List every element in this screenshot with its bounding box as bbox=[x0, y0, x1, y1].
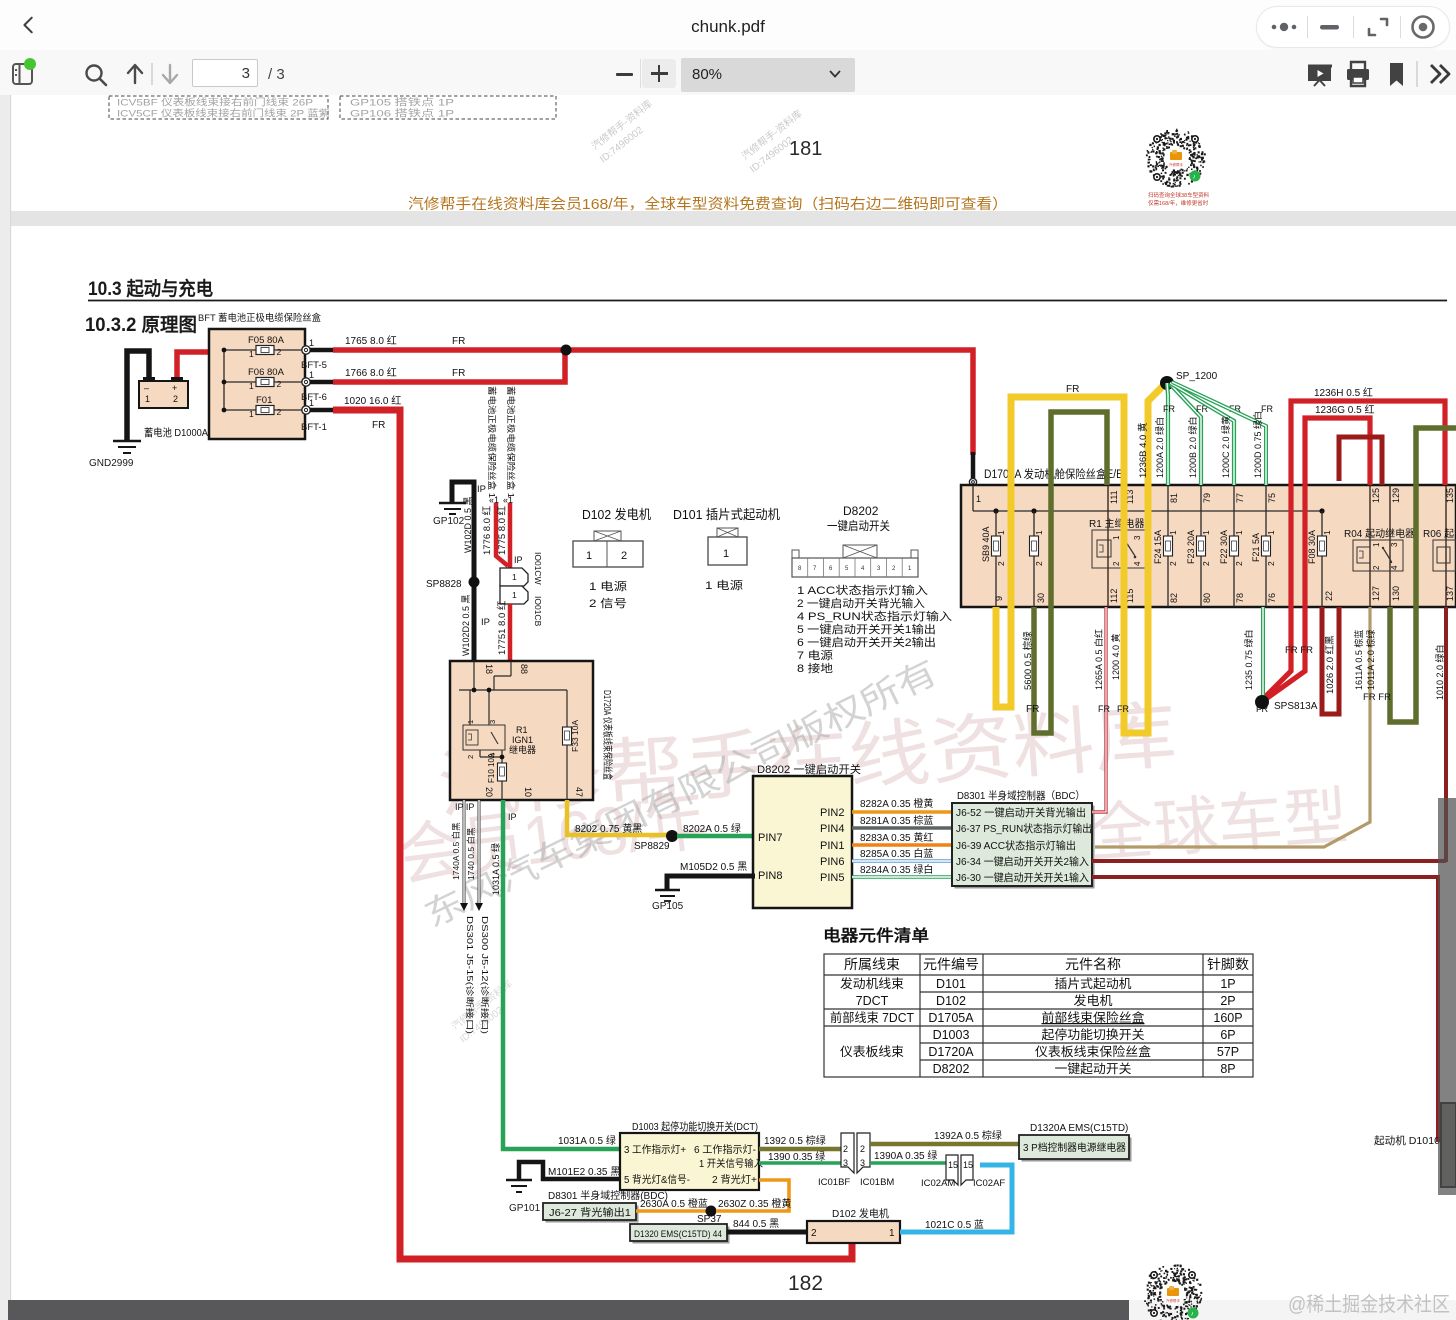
svg-text:5 背光灯&信号-: 5 背光灯&信号- bbox=[624, 1173, 690, 1186]
svg-text:2: 2 bbox=[277, 407, 282, 417]
fuse at pin 30 bbox=[1030, 511, 1047, 607]
svg-text:7 电源: 7 电源 bbox=[797, 648, 833, 662]
svg-text:扫码查询全球38车型资料: 扫码查询全球38车型资料 bbox=[1148, 191, 1210, 199]
svg-text:FR: FR bbox=[1117, 704, 1129, 714]
svg-text:起动机 D1010: 起动机 D1010 bbox=[1374, 1134, 1440, 1147]
scrollbar thumb bbox=[1438, 798, 1456, 1195]
svg-text:1031A 0.5 绿: 1031A 0.5 绿 bbox=[558, 1134, 616, 1147]
battery positive cable bbox=[177, 352, 209, 381]
svg-text:F05 80A: F05 80A bbox=[248, 335, 285, 346]
svg-text:D1705A: D1705A bbox=[928, 1011, 974, 1025]
svg-text:4 PS_RUN状态指示灯输入: 4 PS_RUN状态指示灯输入 bbox=[797, 609, 952, 623]
inline connectors IC02AM/IC02AF bbox=[921, 1155, 1005, 1189]
wire 8202A 0.5 green bbox=[677, 834, 755, 839]
svg-text:FR: FR bbox=[1026, 704, 1039, 715]
connector D8202 push-button pinout bbox=[792, 504, 952, 675]
svg-text:前部线束保险丝盒: 前部线束保险丝盒 bbox=[1042, 1010, 1145, 1025]
svg-text:2: 2 bbox=[1266, 561, 1276, 566]
svg-text:137: 137 bbox=[1445, 586, 1455, 601]
svg-text:1 开关信号输入: 1 开关信号输入 bbox=[699, 1157, 763, 1170]
svg-text:8 接地: 8 接地 bbox=[797, 662, 833, 675]
svg-text:D8301 半身域控制器（BDC）: D8301 半身域控制器（BDC） bbox=[957, 789, 1085, 802]
svg-text:1: 1 bbox=[309, 338, 314, 348]
svg-text:77: 77 bbox=[1235, 493, 1245, 503]
wire 1775 8.0 red bbox=[508, 503, 513, 568]
svg-text:1031A 0.5 绿: 1031A 0.5 绿 bbox=[490, 843, 501, 895]
svg-text:1236G 0.5 红: 1236G 0.5 红 bbox=[1315, 403, 1374, 416]
svg-text:IP: IP bbox=[514, 555, 523, 565]
wire 844 0.5 black bbox=[727, 1230, 807, 1235]
svg-text:D1320A EMS(C15TD): D1320A EMS(C15TD) bbox=[1030, 1123, 1128, 1134]
svg-text:1392 0.5 棕绿: 1392 0.5 棕绿 bbox=[764, 1134, 826, 1147]
svg-text:2: 2 bbox=[277, 347, 282, 357]
svg-text:2: 2 bbox=[1168, 561, 1178, 566]
svg-text:F21 5A: F21 5A bbox=[1251, 533, 1261, 562]
QR code stamp top bbox=[1146, 129, 1210, 207]
svg-text:1776 8.0 红: 1776 8.0 红 bbox=[481, 505, 493, 555]
starter box D1010 under scrollbar bbox=[1441, 1103, 1456, 1187]
svg-text:R1 主继电器: R1 主继电器 bbox=[1089, 517, 1145, 530]
svg-text:1010 2.0 绿白: 1010 2.0 绿白 bbox=[1434, 644, 1445, 700]
svg-text:D102 发电机: D102 发电机 bbox=[582, 507, 651, 522]
wire stub BFT-1 bbox=[310, 408, 333, 413]
svg-text:2: 2 bbox=[843, 1144, 848, 1154]
svg-text:2 背光灯+: 2 背光灯+ bbox=[712, 1173, 757, 1186]
BFT-6 terminal bbox=[301, 370, 327, 403]
svg-text:1: 1 bbox=[512, 590, 517, 600]
svg-text:3: 3 bbox=[843, 1158, 848, 1168]
svg-text:FR: FR bbox=[1163, 404, 1175, 414]
svg-text:1: 1 bbox=[996, 530, 1006, 535]
svg-text:J6-37 PS_RUN状态指示灯输出: J6-37 PS_RUN状态指示灯输出 bbox=[956, 822, 1092, 835]
svg-text:82: 82 bbox=[1169, 593, 1179, 603]
wire 1765 8.0 red bbox=[333, 350, 973, 455]
svg-text:D1003: D1003 bbox=[933, 1028, 970, 1042]
svg-text:1P: 1P bbox=[1220, 977, 1235, 991]
wire M105D2 0.5 black bbox=[667, 876, 755, 890]
fuse F22 30A bbox=[1219, 485, 1245, 607]
svg-text:1775 8.0 红: 1775 8.0 红 bbox=[496, 505, 508, 555]
svg-text:2 信号: 2 信号 bbox=[589, 597, 627, 610]
svg-text:J6-30 一键启动开关开关1输入: J6-30 一键启动开关开关1输入 bbox=[956, 871, 1089, 884]
svg-text:IC02AF: IC02AF bbox=[973, 1178, 1005, 1189]
svg-text:30: 30 bbox=[1036, 593, 1046, 603]
svg-text:D8202: D8202 bbox=[933, 1062, 970, 1076]
svg-text:D8202 一键启动开关: D8202 一键启动开关 bbox=[757, 762, 861, 776]
svg-text:181: 181 bbox=[789, 138, 822, 160]
svg-text:1200A 2.0 绿白: 1200A 2.0 绿白 bbox=[1154, 417, 1165, 478]
wire 2630Z 0.35 orange-yellow bbox=[716, 1180, 789, 1211]
svg-text:10: 10 bbox=[523, 787, 533, 797]
svg-text:2: 2 bbox=[1034, 561, 1044, 566]
svg-text:1: 1 bbox=[309, 398, 314, 408]
D1705A internal bus bbox=[973, 485, 1322, 511]
svg-text:1: 1 bbox=[586, 550, 592, 562]
fuse F05 80A bbox=[248, 335, 285, 359]
generator D102 bbox=[807, 1207, 900, 1243]
wire 1026 2.0 red-black loop bbox=[1322, 607, 1339, 714]
fuse box D1720A instrument panel bbox=[450, 661, 593, 800]
ground GND2999 bbox=[113, 441, 141, 453]
svg-text:5600 0.5 棕绿: 5600 0.5 棕绿 bbox=[1022, 631, 1034, 690]
fuse F06 80A bbox=[248, 367, 285, 391]
svg-text:76: 76 bbox=[1267, 593, 1277, 603]
svg-text:129: 129 bbox=[1391, 488, 1401, 503]
relay R1 IGN1 bbox=[463, 720, 536, 759]
connector list box ICV5BF/ICV5CF bbox=[109, 96, 331, 120]
svg-text:1765 8.0 红: 1765 8.0 红 bbox=[345, 334, 397, 347]
svg-text:15: 15 bbox=[948, 1160, 958, 1170]
svg-text:汽修帮手: 汽修帮手 bbox=[1169, 162, 1184, 167]
wire 1611A tan from pin127 bbox=[1095, 607, 1370, 847]
fuse F23 20A bbox=[1186, 485, 1212, 607]
svg-text:FR FR: FR FR bbox=[1285, 645, 1313, 656]
svg-text:蓄电池正极电缆保险丝盒 1: 蓄电池正极电缆保险丝盒 1 bbox=[506, 386, 516, 498]
svg-text:1: 1 bbox=[1372, 542, 1381, 547]
svg-text:3: 3 bbox=[860, 1158, 865, 1168]
svg-text:M105D2 0.5 黑: M105D2 0.5 黑 bbox=[680, 861, 747, 873]
QR code stamp bottom bbox=[1144, 1264, 1202, 1320]
svg-text:2 一键启动开关背光输入: 2 一键启动开关背光输入 bbox=[797, 596, 925, 610]
svg-text:182: 182 bbox=[788, 1272, 823, 1295]
wire 1200A 2.0 green-white bbox=[1154, 383, 1175, 485]
svg-text:1: 1 bbox=[1234, 530, 1244, 535]
wires 1740A/1740 white-black to DS301/DS300 bbox=[451, 800, 490, 1034]
svg-text:15: 15 bbox=[963, 1160, 973, 1170]
svg-text:FR: FR bbox=[452, 336, 465, 347]
svg-text:2: 2 bbox=[811, 1228, 817, 1239]
svg-text:88: 88 bbox=[519, 664, 529, 674]
svg-text:D1320 EMS(C15TD) 44: D1320 EMS(C15TD) 44 bbox=[634, 1229, 722, 1240]
relay R06 bbox=[1423, 485, 1456, 607]
D1720A internals bbox=[459, 661, 567, 800]
wire 1235 0.75 green-white bbox=[1243, 607, 1268, 714]
svg-text:FR: FR bbox=[372, 420, 385, 431]
svg-text:发电机: 发电机 bbox=[1074, 993, 1114, 1008]
svg-text:D8202: D8202 bbox=[843, 504, 879, 518]
ground point list box GP105/GP106 bbox=[340, 96, 556, 120]
svg-text:D101: D101 bbox=[936, 977, 966, 991]
BFT-5 terminal bbox=[301, 338, 327, 371]
svg-text:GP105: GP105 bbox=[652, 901, 684, 912]
relay R04 starter bbox=[1344, 485, 1415, 607]
svg-text:F23 20A: F23 20A bbox=[1186, 530, 1196, 564]
svg-text:125: 125 bbox=[1371, 488, 1381, 503]
svg-text:元件名称: 元件名称 bbox=[1065, 957, 1121, 972]
svg-text:1026 2.0 红黑: 1026 2.0 红黑 bbox=[1324, 635, 1336, 694]
fuse box BFT bbox=[209, 329, 305, 439]
svg-text:J6-52 一键启动开关背光输出: J6-52 一键启动开关背光输出 bbox=[956, 806, 1086, 819]
wire 1265A 0.5 white-red (J6-52 to pin112) bbox=[1092, 607, 1110, 812]
svg-text:FR FR: FR FR bbox=[1363, 692, 1391, 703]
svg-text:5 一键启动开关开关1输出: 5 一键启动开关开关1输出 bbox=[797, 622, 936, 636]
EMS output box D8301 J6-27 bbox=[543, 1189, 668, 1223]
wire 1010 2.0 from pin137 / J6-34 feed bbox=[1444, 607, 1448, 862]
svg-text:发动机线束: 发动机线束 bbox=[840, 976, 904, 991]
inter page gap bbox=[11, 211, 1456, 226]
svg-text:♪: ♪ bbox=[1193, 174, 1196, 181]
svg-text:8281A 0.35 棕蓝: 8281A 0.35 棕蓝 bbox=[860, 814, 933, 827]
svg-text:+: + bbox=[172, 383, 177, 393]
svg-text:1: 1 bbox=[1201, 530, 1211, 535]
svg-text:18: 18 bbox=[484, 664, 494, 674]
svg-text:1611A 0.5 棕蓝: 1611A 0.5 棕蓝 bbox=[1353, 630, 1364, 690]
wire 8283A 0.35 yellow-red bbox=[852, 843, 952, 847]
pin columns 111/112 and 113/115 bbox=[1107, 485, 1109, 607]
wire 17751 8.0 red bbox=[508, 604, 513, 660]
svg-text:1021C 0.5 蓝: 1021C 0.5 蓝 bbox=[925, 1219, 984, 1231]
wire 1200C 2.0 green-yellow bbox=[1170, 383, 1241, 485]
svg-text:F01: F01 bbox=[256, 395, 272, 406]
svg-text:仪表板线束保险丝盒: 仪表板线束保险丝盒 bbox=[1035, 1044, 1151, 1059]
svg-text:130: 130 bbox=[1391, 586, 1401, 601]
svg-text:135: 135 bbox=[1445, 488, 1455, 503]
svg-text:1 ACC状态指示灯输入: 1 ACC状态指示灯输入 bbox=[797, 583, 928, 597]
wire 8282A 0.35 orange-yellow bbox=[852, 810, 952, 814]
svg-text:1390A 0.35 绿: 1390A 0.35 绿 bbox=[874, 1149, 937, 1162]
svg-text:DS300 J5-12(诊断接口): DS300 J5-12(诊断接口) bbox=[480, 916, 490, 1034]
svg-text:1: 1 bbox=[249, 349, 254, 359]
battery D1000A bbox=[139, 377, 208, 439]
svg-text:78: 78 bbox=[1235, 593, 1245, 603]
svg-text:2: 2 bbox=[1201, 561, 1211, 566]
page 2 (previous page bottom) bbox=[11, 95, 1456, 211]
svg-text:插片式起动机: 插片式起动机 bbox=[1055, 977, 1132, 991]
svg-text:2: 2 bbox=[860, 1144, 865, 1154]
ground GP102 bbox=[439, 503, 466, 514]
svg-text:SB9 40A: SB9 40A bbox=[981, 526, 991, 562]
fuse F08 30A bbox=[1307, 511, 1334, 607]
svg-text:IC02AM: IC02AM bbox=[921, 1178, 955, 1189]
svg-text:D1720A: D1720A bbox=[928, 1045, 974, 1059]
svg-text:1: 1 bbox=[1112, 535, 1121, 540]
svg-text:PIN4: PIN4 bbox=[820, 823, 844, 835]
svg-text:BFT-1: BFT-1 bbox=[301, 422, 327, 433]
svg-text:8283A 0.35 黄红: 8283A 0.35 黄红 bbox=[860, 831, 933, 844]
wire stub BFT-5 bbox=[310, 348, 333, 353]
svg-text:3 工作指示灯+: 3 工作指示灯+ bbox=[624, 1143, 686, 1156]
bottom-right light band bbox=[1129, 1300, 1456, 1320]
svg-text:1200B 2.0 绿白: 1200B 2.0 绿白 bbox=[1187, 416, 1198, 478]
fuse F10 10A bbox=[487, 752, 507, 783]
svg-text:汽修帮手: 汽修帮手 bbox=[1166, 1298, 1181, 1303]
svg-text:电器元件清单: 电器元件清单 bbox=[823, 926, 929, 945]
svg-text:继电器: 继电器 bbox=[509, 744, 536, 755]
svg-text:1: 1 bbox=[1322, 530, 1332, 535]
svg-text:GP105 搭铁点 1P: GP105 搭铁点 1P bbox=[350, 97, 454, 109]
svg-text:F08 30A: F08 30A bbox=[1307, 530, 1317, 564]
svg-text:8284A 0.35 绿白: 8284A 0.35 绿白 bbox=[860, 863, 933, 876]
fuse box D1705A engine bay bbox=[961, 485, 1456, 607]
svg-text:1235 0.75 绿白: 1235 0.75 绿白 bbox=[1243, 629, 1254, 690]
svg-text:M101E2 0.35 黑: M101E2 0.35 黑 bbox=[548, 1166, 620, 1178]
svg-text:80: 80 bbox=[1202, 593, 1212, 603]
EMS box D1320A bbox=[1019, 1123, 1132, 1162]
wire stub BFT-6 bbox=[310, 380, 333, 385]
svg-text:1 电源: 1 电源 bbox=[589, 579, 627, 593]
svg-text:1200D 0.75 绿白: 1200D 0.75 绿白 bbox=[1252, 411, 1263, 478]
svg-text:BFT 蓄电池正极电缆保险丝盒: BFT 蓄电池正极电缆保险丝盒 bbox=[198, 312, 321, 324]
wire 1236H 0.5 red bbox=[1262, 401, 1445, 700]
wire 1390A 0.35 green bbox=[870, 1161, 946, 1165]
connector D102 generator pinout bbox=[573, 507, 651, 610]
svg-text:D101 插片式起动机: D101 插片式起动机 bbox=[673, 507, 780, 522]
svg-text:2: 2 bbox=[1112, 561, 1121, 566]
wire 1200B 2.0 green-white bbox=[1170, 384, 1208, 485]
svg-text:D1003 起停功能切换开关(DCT): D1003 起停功能切换开关(DCT) bbox=[632, 1120, 758, 1133]
svg-text:R1: R1 bbox=[516, 725, 528, 735]
wire 1021C 0.5 blue bbox=[900, 1165, 1012, 1232]
ground GP101 bbox=[506, 1180, 532, 1192]
svg-text:–: – bbox=[144, 383, 149, 393]
svg-text:D1720A 仪表板线束保险丝盒: D1720A 仪表板线束保险丝盒 bbox=[601, 690, 614, 780]
svg-text:1: 1 bbox=[976, 494, 981, 504]
svg-text:844 0.5 黑: 844 0.5 黑 bbox=[733, 1218, 779, 1230]
svg-text:2630Z 0.35 橙黄: 2630Z 0.35 橙黄 bbox=[718, 1197, 791, 1210]
svg-text:一键起动开关: 一键起动开关 bbox=[1055, 1062, 1132, 1076]
svg-text:1740 0.5 白黑: 1740 0.5 白黑 bbox=[466, 827, 476, 880]
svg-text:8P: 8P bbox=[1220, 1062, 1235, 1076]
svg-text:J6-27 背光输出1: J6-27 背光输出1 bbox=[549, 1206, 631, 1219]
svg-text:1236B 4.0 黄: 1236B 4.0 黄 bbox=[1137, 423, 1149, 478]
svg-text:6 一键启动开关开关2输出: 6 一键启动开关开关2输出 bbox=[797, 635, 936, 649]
svg-text:PIN2: PIN2 bbox=[820, 807, 844, 819]
svg-text:DS301 J5-15(诊断接口): DS301 J5-15(诊断接口) bbox=[465, 916, 475, 1034]
wire 1392 0.5 brown-green bbox=[759, 1147, 841, 1152]
svg-text:8282A 0.35 橙黄: 8282A 0.35 橙黄 bbox=[860, 797, 933, 810]
svg-text:1236H 0.5 红: 1236H 0.5 红 bbox=[1314, 386, 1373, 399]
connector D101 starter pinout bbox=[673, 507, 780, 592]
wire M101E2 0.35 black bbox=[519, 1162, 620, 1180]
svg-text:蓄电池正极电缆保险丝盒 1: 蓄电池正极电缆保险丝盒 1 bbox=[487, 386, 497, 498]
fuse F21 5A bbox=[1251, 485, 1277, 607]
component table bbox=[824, 954, 1253, 1077]
junction SP8828 bbox=[469, 577, 480, 588]
svg-text:2: 2 bbox=[1372, 565, 1381, 570]
svg-text:3: 3 bbox=[1133, 535, 1142, 540]
svg-text:R04 起动继电器: R04 起动继电器 bbox=[1344, 527, 1415, 540]
svg-text:所属线束: 所属线束 bbox=[844, 957, 901, 972]
wire 1236G 0.5 red bbox=[1263, 418, 1370, 701]
svg-text:2P: 2P bbox=[1220, 994, 1235, 1008]
svg-text:8202 0.75 黄黑: 8202 0.75 黄黑 bbox=[575, 822, 642, 835]
svg-text:R06 起动: R06 起动 bbox=[1423, 528, 1456, 540]
wire 8202 0.75 yellow-black bbox=[567, 800, 668, 835]
svg-text:1: 1 bbox=[1034, 530, 1044, 535]
wire 1390 0.35 green bbox=[759, 1161, 841, 1165]
svg-text:1392A 0.5 棕绿: 1392A 0.5 棕绿 bbox=[934, 1129, 1002, 1142]
svg-text:1: 1 bbox=[889, 1228, 895, 1239]
bottom bar bbox=[8, 1300, 1129, 1320]
wire 1236B 4.0 yellow loop bbox=[996, 386, 1163, 733]
svg-text:10.3 起动与充电: 10.3 起动与充电 bbox=[88, 277, 213, 300]
svg-text:7DCT: 7DCT bbox=[856, 994, 889, 1008]
svg-text:PIN1: PIN1 bbox=[820, 840, 844, 852]
svg-text:9: 9 bbox=[994, 596, 1004, 601]
fuse F33 10A bbox=[563, 720, 581, 752]
junction SP_1200 bbox=[1160, 376, 1174, 390]
svg-text:112: 112 bbox=[1109, 589, 1119, 603]
svg-text:起停功能切换开关: 起停功能切换开关 bbox=[1042, 1027, 1145, 1042]
junction dots on bus bbox=[993, 508, 998, 513]
svg-text:127: 127 bbox=[1371, 586, 1381, 601]
svg-text:前部线束 7DCT: 前部线束 7DCT bbox=[830, 1010, 914, 1025]
svg-text:F22 30A: F22 30A bbox=[1219, 530, 1229, 564]
svg-text:PIN5: PIN5 bbox=[820, 872, 844, 884]
svg-text:IP: IP bbox=[481, 617, 490, 628]
wire 2630A 0.5 orange-blue bbox=[636, 1209, 711, 1213]
svg-text:3: 3 bbox=[1390, 542, 1399, 547]
wire 1011A olive loop from pin130 bbox=[1390, 428, 1456, 722]
svg-text:F24 15A: F24 15A bbox=[1153, 530, 1163, 564]
svg-text:SP8828: SP8828 bbox=[426, 579, 462, 590]
wire W102D black bbox=[452, 482, 474, 660]
svg-text:GP102: GP102 bbox=[433, 516, 465, 527]
svg-text:IC01BM: IC01BM bbox=[860, 1177, 894, 1188]
svg-text:PIN8: PIN8 bbox=[758, 870, 782, 882]
svg-text:1: 1 bbox=[466, 720, 475, 724]
big light watermarks bbox=[395, 653, 1351, 1045]
svg-text:1 电源: 1 电源 bbox=[705, 578, 743, 592]
svg-text:1: 1 bbox=[249, 409, 254, 419]
svg-text:ICV5CF 仪表板线束接右前门线束 2P 蓝紫: ICV5CF 仪表板线束接右前门线束 2P 蓝紫 bbox=[117, 108, 331, 120]
svg-text:IGN1: IGN1 bbox=[512, 735, 533, 745]
svg-text:GP101: GP101 bbox=[509, 1203, 541, 1214]
junction SPS813A bbox=[1255, 695, 1269, 709]
svg-text:8202A 0.5 绿: 8202A 0.5 绿 bbox=[683, 822, 741, 835]
wire J6-30 dark red to starter bbox=[1092, 877, 1444, 1140]
svg-text:2: 2 bbox=[277, 379, 282, 389]
push button switch D8202 bbox=[753, 776, 852, 908]
svg-text:D102: D102 bbox=[936, 994, 966, 1008]
svg-text:D102 发电机: D102 发电机 bbox=[832, 1207, 889, 1220]
inline connectors IC01BF/IC01BM bbox=[818, 1133, 894, 1188]
svg-text:F10 10A: F10 10A bbox=[487, 752, 496, 783]
relay R1 main bbox=[1089, 517, 1147, 568]
svg-text:仅需168/年，维修更省时: 仅需168/年，维修更省时 bbox=[1148, 199, 1209, 207]
junction SP of 1765/1766 bbox=[561, 345, 572, 356]
wire 1020 16.0 red bbox=[333, 410, 852, 1259]
svg-text:1200C 2.0 绿黄: 1200C 2.0 绿黄 bbox=[1220, 416, 1231, 478]
wire 1200D 0.75 green-white bbox=[1172, 382, 1273, 485]
wire 1031A 0.5 green bbox=[503, 800, 620, 1149]
svg-text:1740A 0.5 白黑: 1740A 0.5 白黑 bbox=[451, 822, 461, 880]
BFT-1 terminal bbox=[301, 398, 327, 433]
svg-text:1: 1 bbox=[145, 394, 150, 404]
svg-text:IP: IP bbox=[477, 484, 486, 495]
svg-text:IO01CB: IO01CB bbox=[533, 596, 543, 627]
svg-text:10.3.2 原理图: 10.3.2 原理图 bbox=[85, 314, 197, 336]
svg-text:针脚数: 针脚数 bbox=[1207, 957, 1250, 972]
wire 8284A 0.35 green-white bbox=[852, 863, 952, 877]
svg-text:22: 22 bbox=[1324, 591, 1334, 601]
svg-text:1200 4.0 黄: 1200 4.0 黄 bbox=[1110, 633, 1121, 680]
svg-text:1: 1 bbox=[723, 548, 729, 560]
svg-text:一键启动开关: 一键启动开关 bbox=[827, 519, 890, 533]
svg-text:2: 2 bbox=[996, 561, 1006, 566]
svg-text:75: 75 bbox=[1267, 493, 1277, 503]
svg-text:1265A 0.5 白红: 1265A 0.5 白红 bbox=[1093, 629, 1104, 690]
wire J6-34 dark red to right bbox=[1092, 859, 1446, 863]
fuse F24 15A bbox=[1153, 485, 1179, 607]
svg-text:SP_1200: SP_1200 bbox=[1176, 371, 1218, 382]
ground GP105 bbox=[655, 890, 680, 901]
svg-text:6 工作指示灯-: 6 工作指示灯- bbox=[694, 1143, 756, 1156]
wire 1776 8.0 red bbox=[496, 503, 508, 566]
svg-text:IP: IP bbox=[508, 812, 517, 822]
svg-text:2630A 0.5 橙蓝: 2630A 0.5 橙蓝 bbox=[640, 1197, 708, 1210]
svg-text:GND2999: GND2999 bbox=[89, 458, 134, 469]
